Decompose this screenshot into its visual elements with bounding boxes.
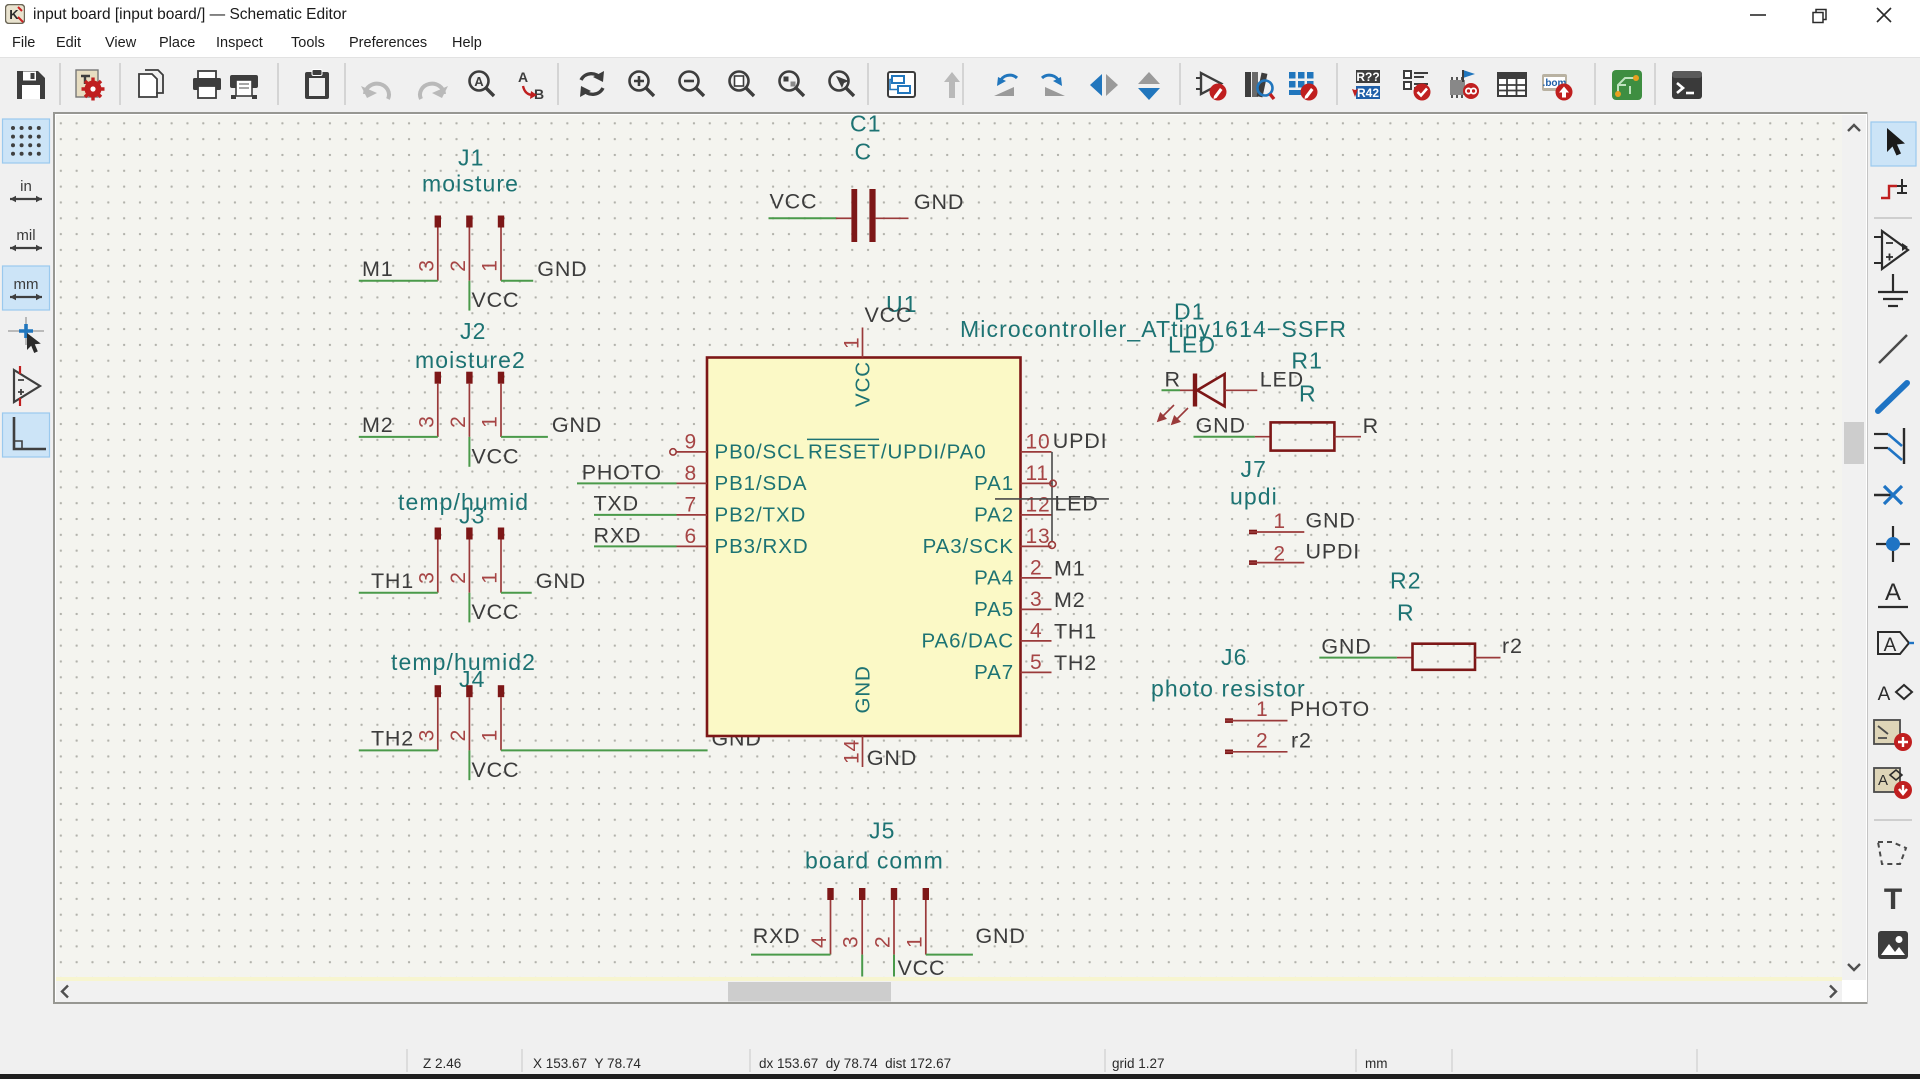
- svg-text:M1: M1: [1054, 557, 1085, 581]
- svg-text:board comm: board comm: [805, 848, 944, 874]
- svg-text:RXD: RXD: [753, 924, 801, 948]
- svg-text:J6: J6: [1221, 644, 1248, 670]
- svg-text:13: 13: [1026, 525, 1051, 548]
- svg-text:R: R: [1165, 367, 1181, 391]
- svg-text:dx 153.67 dy 78.74 dist 172.: dx 153.67 dy 78.74 dist 172.67: [759, 1056, 951, 1071]
- svg-text:1: 1: [903, 936, 926, 948]
- svg-text:PA3/SCK: PA3/SCK: [923, 535, 1014, 558]
- svg-text:GND: GND: [867, 746, 917, 770]
- svg-text:PB0/SCL: PB0/SCL: [715, 441, 806, 464]
- svg-text:2: 2: [1030, 556, 1042, 579]
- svg-text:mm: mm: [1365, 1056, 1388, 1071]
- svg-text:2: 2: [447, 415, 470, 427]
- svg-text:RXD: RXD: [594, 523, 642, 547]
- svg-text:GND: GND: [1196, 414, 1246, 438]
- svg-text:1: 1: [1256, 698, 1268, 721]
- svg-text:UPDI: UPDI: [1053, 429, 1108, 453]
- svg-text:J2: J2: [460, 318, 487, 344]
- svg-text:2: 2: [447, 571, 470, 583]
- svg-text:J7: J7: [1241, 456, 1268, 482]
- svg-text:PHOTO: PHOTO: [582, 460, 662, 484]
- svg-text:VCC: VCC: [472, 600, 520, 624]
- svg-text:J3: J3: [459, 503, 486, 529]
- svg-text:M1: M1: [362, 257, 393, 281]
- svg-text:11: 11: [1026, 462, 1049, 485]
- svg-text:2: 2: [872, 936, 895, 948]
- svg-text:1: 1: [479, 571, 502, 583]
- svg-text:GND: GND: [537, 257, 587, 281]
- svg-text:R: R: [1397, 599, 1415, 625]
- svg-text:PHOTO: PHOTO: [1290, 697, 1370, 721]
- svg-text:6: 6: [685, 525, 697, 548]
- svg-text:GND: GND: [536, 569, 586, 593]
- svg-text:R1: R1: [1291, 348, 1323, 374]
- svg-text:VCC: VCC: [898, 956, 946, 980]
- svg-text:photo resistor: photo resistor: [1151, 676, 1306, 702]
- svg-text:J5: J5: [869, 818, 896, 844]
- svg-text:8: 8: [685, 462, 697, 485]
- svg-text:X 153.67 Y 78.74: X 153.67 Y 78.74: [533, 1056, 641, 1071]
- svg-text:VCC: VCC: [472, 444, 520, 468]
- svg-text:PA1: PA1: [974, 472, 1014, 495]
- svg-text:PA2: PA2: [974, 504, 1014, 527]
- svg-text:1: 1: [841, 337, 864, 349]
- svg-text:VCC: VCC: [852, 361, 875, 407]
- svg-text:GND: GND: [852, 665, 875, 713]
- svg-text:moisture: moisture: [422, 171, 519, 197]
- svg-text:5: 5: [1030, 651, 1042, 674]
- svg-text:3: 3: [415, 729, 438, 741]
- svg-text:2: 2: [447, 729, 470, 741]
- svg-text:PB2/TXD: PB2/TXD: [715, 504, 807, 527]
- svg-text:PA4: PA4: [974, 567, 1014, 590]
- svg-text:GND: GND: [976, 924, 1026, 948]
- svg-text:RESET/UPDI/PA0: RESET/UPDI/PA0: [808, 441, 987, 464]
- svg-text:VCC: VCC: [472, 288, 520, 312]
- svg-text:1: 1: [1273, 510, 1285, 533]
- svg-text:14: 14: [841, 739, 864, 764]
- svg-text:PB3/RXD: PB3/RXD: [715, 535, 809, 558]
- svg-text:12: 12: [1026, 493, 1051, 516]
- svg-text:updi: updi: [1230, 484, 1278, 510]
- svg-text:GND: GND: [552, 413, 602, 437]
- svg-text:VCC: VCC: [472, 758, 520, 782]
- svg-text:TH1: TH1: [1054, 620, 1097, 644]
- svg-text:LED: LED: [1168, 332, 1216, 358]
- svg-text:3: 3: [840, 936, 863, 948]
- svg-text:TH2: TH2: [371, 727, 414, 751]
- svg-text:LED: LED: [1054, 492, 1098, 516]
- svg-text:PA5: PA5: [974, 598, 1014, 621]
- svg-text:PA6/DAC: PA6/DAC: [921, 630, 1014, 653]
- svg-text:GND: GND: [1321, 635, 1371, 659]
- svg-text:PB1/SDA: PB1/SDA: [715, 472, 808, 495]
- svg-text:M2: M2: [1054, 588, 1085, 612]
- svg-text:J1: J1: [458, 145, 485, 171]
- svg-text:3: 3: [415, 259, 438, 271]
- svg-text:C: C: [855, 139, 873, 165]
- svg-text:UPDI: UPDI: [1306, 539, 1361, 563]
- svg-text:M2: M2: [362, 413, 393, 437]
- svg-text:9: 9: [685, 430, 697, 453]
- svg-text:TH2: TH2: [1054, 651, 1097, 675]
- svg-text:GND: GND: [1306, 509, 1356, 533]
- svg-text:Microcontroller_ATtiny1614−SSF: Microcontroller_ATtiny1614−SSFR: [960, 316, 1347, 342]
- svg-text:VCC: VCC: [770, 190, 818, 214]
- svg-text:r2: r2: [1502, 634, 1523, 658]
- svg-text:TXD: TXD: [594, 491, 639, 515]
- svg-text:1: 1: [479, 729, 502, 741]
- svg-text:D1: D1: [1174, 299, 1206, 325]
- svg-text:3: 3: [415, 415, 438, 427]
- svg-text:1: 1: [479, 415, 502, 427]
- svg-text:TH1: TH1: [371, 569, 414, 593]
- svg-text:4: 4: [1030, 619, 1042, 642]
- svg-text:PA7: PA7: [974, 661, 1014, 684]
- svg-text:4: 4: [808, 936, 831, 948]
- svg-text:3: 3: [1030, 588, 1042, 611]
- svg-text:R2: R2: [1390, 568, 1422, 594]
- svg-text:C1: C1: [850, 111, 882, 137]
- svg-text:GND: GND: [914, 190, 964, 214]
- svg-text:R: R: [1363, 414, 1379, 438]
- svg-text:3: 3: [415, 571, 438, 583]
- svg-text:1: 1: [479, 259, 502, 271]
- svg-text:2: 2: [1256, 729, 1268, 752]
- svg-text:r2: r2: [1291, 728, 1312, 752]
- svg-text:7: 7: [685, 493, 697, 516]
- svg-text:2: 2: [447, 259, 470, 271]
- svg-text:10: 10: [1026, 430, 1051, 453]
- svg-text:R: R: [1299, 381, 1317, 407]
- svg-text:Z 2.46: Z 2.46: [423, 1056, 461, 1071]
- svg-text:VCC: VCC: [865, 303, 913, 327]
- svg-text:grid 1.27: grid 1.27: [1112, 1056, 1165, 1071]
- svg-text:moisture2: moisture2: [415, 347, 526, 373]
